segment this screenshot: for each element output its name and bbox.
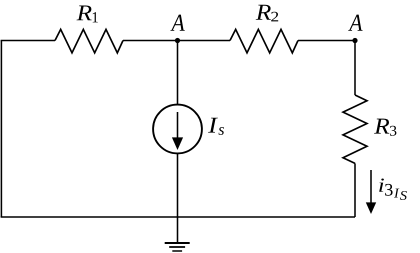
wire R1 to node A: [123, 40, 178, 42]
wire left side: [0, 41, 2, 218]
current source Is: [153, 105, 202, 154]
resistor R1: [55, 29, 123, 53]
ground: [165, 243, 190, 251]
label A right: [348, 15, 362, 31]
wire right top to R3: [354, 41, 356, 96]
node A center: [175, 38, 180, 43]
label A center: [170, 15, 184, 31]
label i3_IS: [379, 179, 407, 200]
wire right bottom from R3: [354, 163, 356, 217]
current arrow i3: [366, 170, 376, 214]
label R3: [374, 119, 396, 136]
wire bottom: [1, 216, 355, 218]
label Is: [208, 118, 224, 135]
node A right: [352, 38, 357, 43]
wire node A to R2: [178, 40, 231, 42]
resistor R3: [343, 95, 367, 163]
wire R2 to right node A: [298, 40, 355, 42]
wire current source to ground: [177, 154, 179, 243]
wire top-left to R1: [1, 40, 55, 42]
wire node A down to current source: [177, 41, 179, 105]
label R1: [77, 6, 98, 23]
resistor R2: [230, 29, 298, 53]
label R2: [256, 5, 279, 22]
